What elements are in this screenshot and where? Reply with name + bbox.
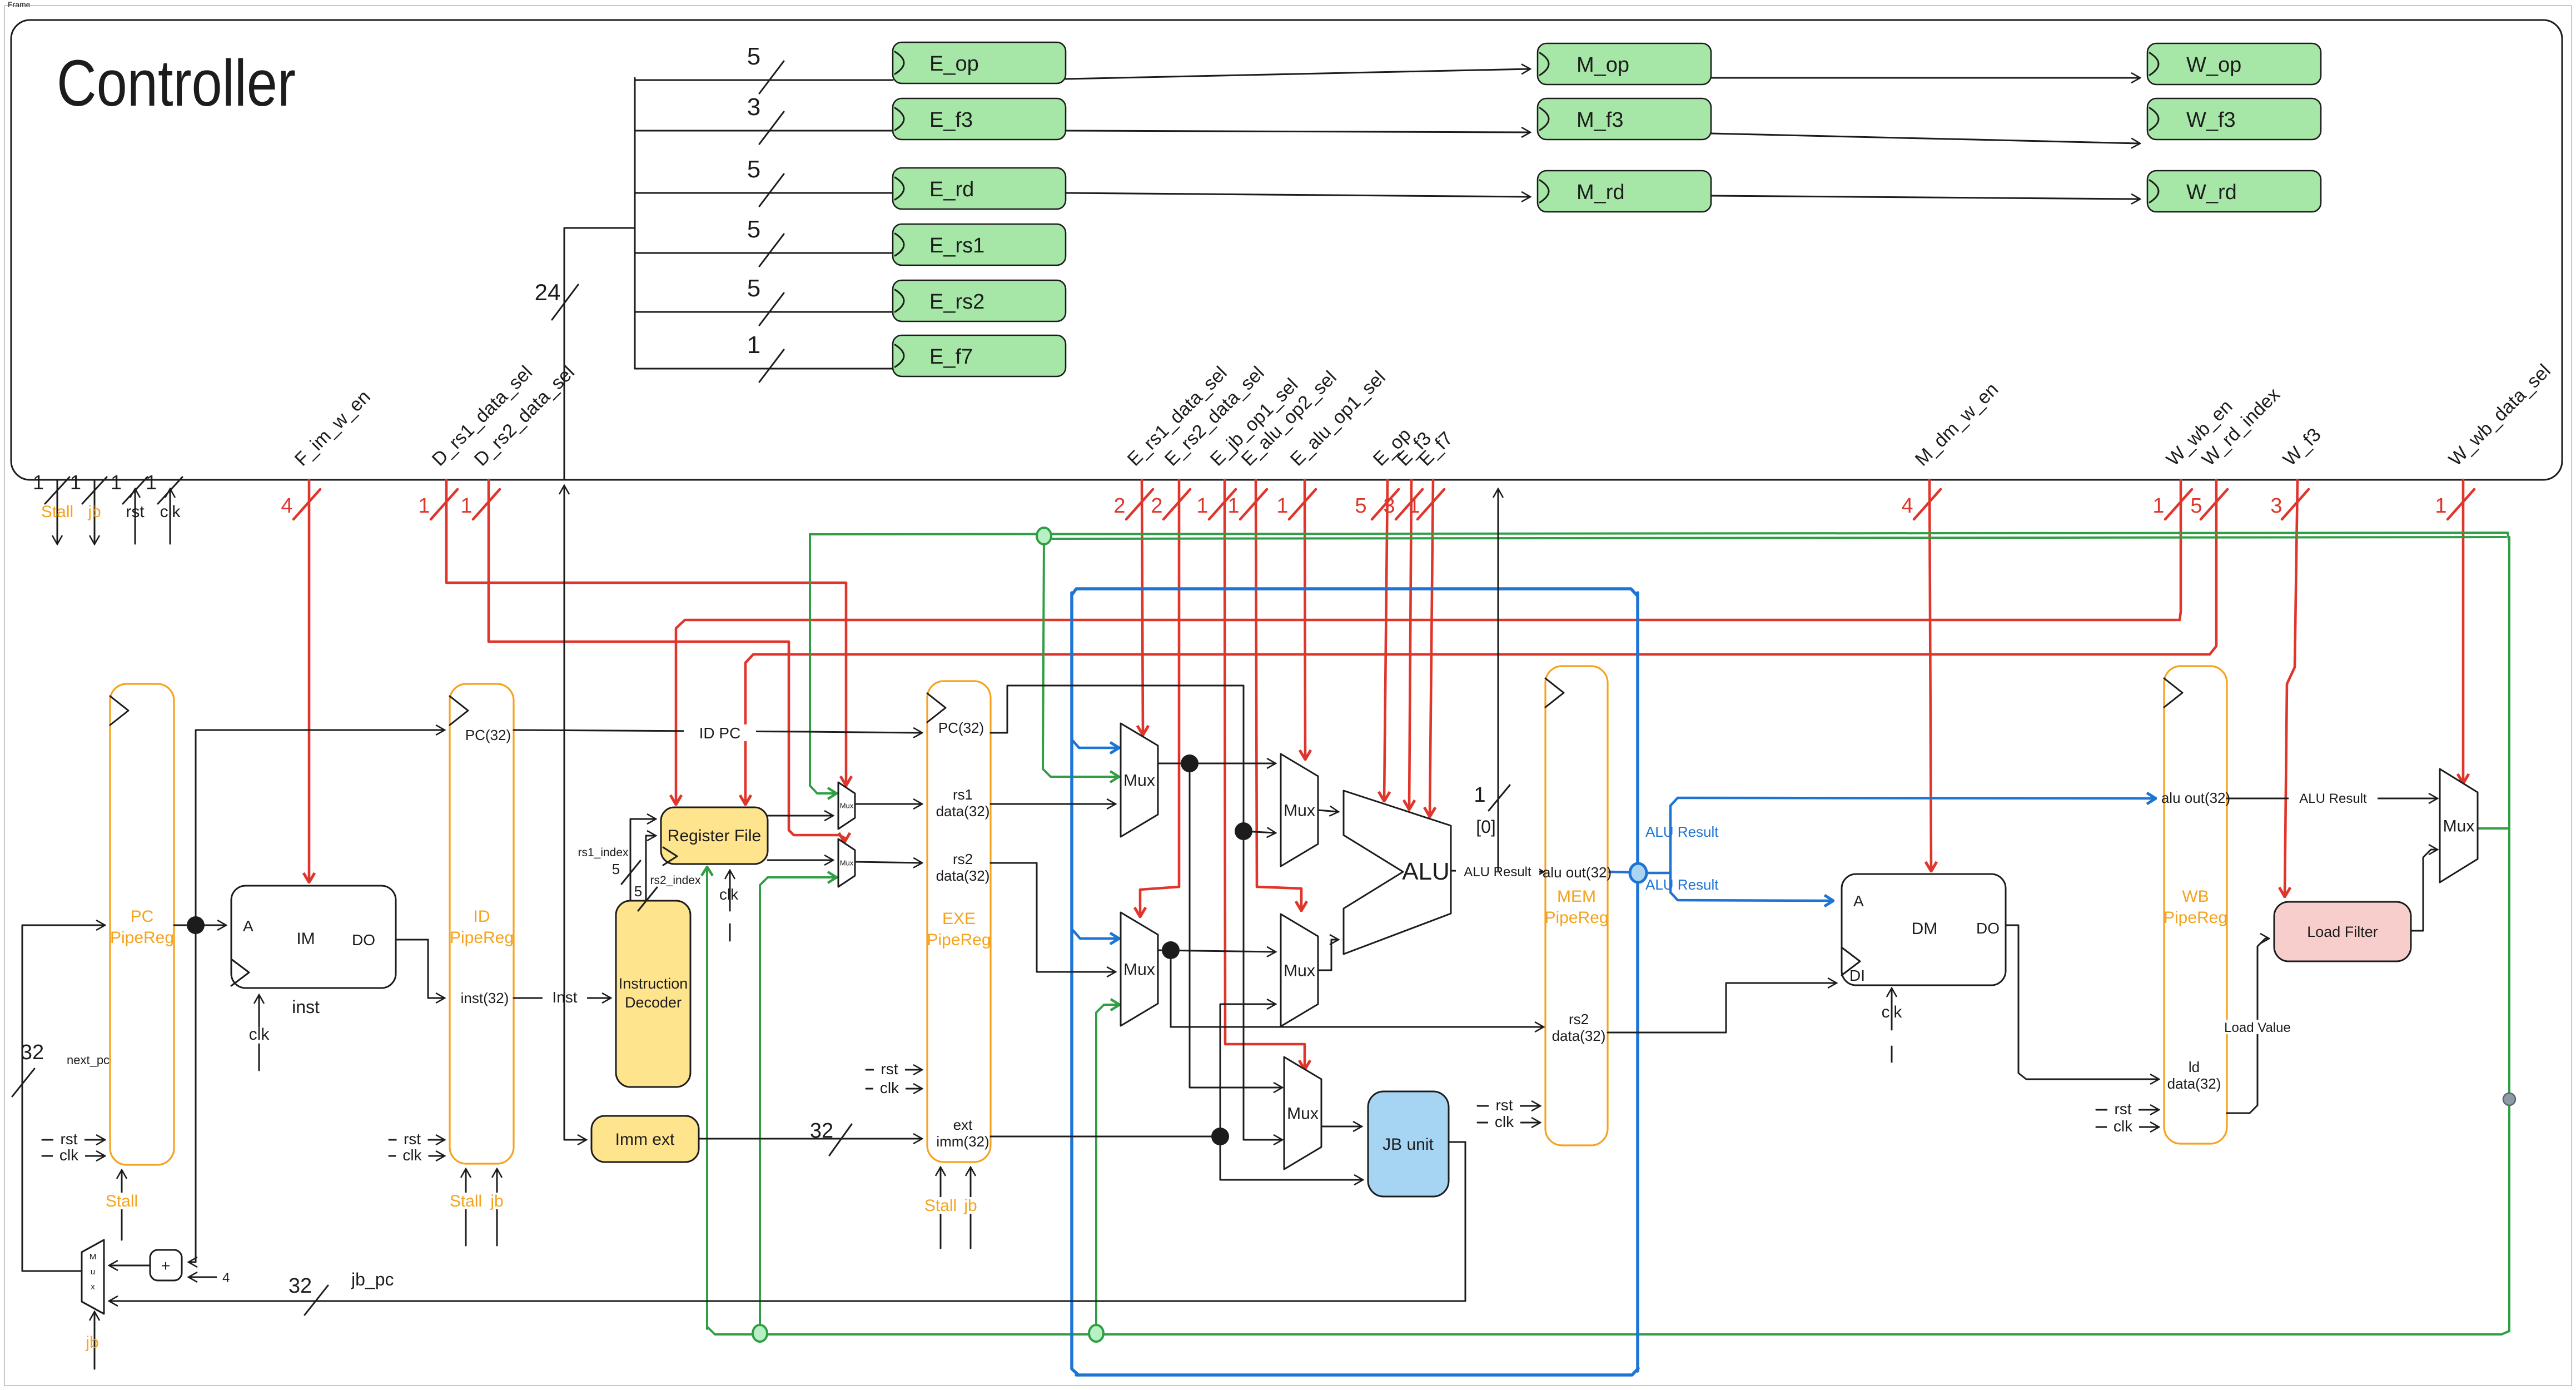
wire to E register (5 bits) (635, 156, 893, 206)
label M_dm_w_en width 4 (1901, 489, 1941, 519)
svg-text:M: M (89, 1252, 97, 1262)
svg-text:clk: clk (402, 1146, 422, 1164)
junction imm value (1211, 1128, 1229, 1145)
svg-text:DO: DO (1976, 920, 2000, 937)
svg-text:5: 5 (747, 156, 760, 183)
svg-text:3: 3 (1383, 494, 1395, 518)
label alu result bit0 (1474, 783, 1510, 837)
junction PC value (187, 916, 205, 934)
wire imm ext to EXE reg (699, 1119, 922, 1155)
svg-text:PC(32): PC(32) (938, 719, 984, 736)
immediate extender (591, 1116, 699, 1162)
svg-text:E_rd: E_rd (929, 178, 974, 201)
EXE PipeReg (927, 681, 991, 1162)
WB PipeReg (2164, 666, 2227, 1144)
wire to E register (5 bits) (635, 216, 893, 266)
svg-text:W_rd: W_rd (2186, 181, 2237, 204)
port rst (111, 471, 147, 544)
label E_f7 width 1 (1408, 489, 1444, 519)
svg-text:data(32): data(32) (1552, 1027, 1606, 1044)
svg-text:clk: clk (1495, 1113, 1514, 1130)
svg-text:M_op: M_op (1577, 53, 1629, 77)
svg-text:inst(32): inst(32) (461, 990, 509, 1006)
wire to E register (1 bits) (635, 331, 893, 382)
wire E_rd to M_rd (1066, 193, 1530, 197)
svg-text:u: u (91, 1267, 95, 1277)
svg-text:rst: rst (60, 1130, 77, 1148)
svg-text:PipeReg: PipeReg (927, 931, 991, 949)
alu op2 mux (1281, 914, 1318, 1026)
svg-text:Mux: Mux (2443, 817, 2475, 836)
svg-text:4: 4 (222, 1270, 230, 1285)
pc plus4 adder (150, 1250, 182, 1280)
wire M_dm_w_en to DM (1929, 480, 1931, 871)
wire D_rs1_data_sel to rs1 forward mux (446, 480, 846, 785)
jump branch unit (1368, 1091, 1449, 1197)
svg-text:clk: clk (2113, 1118, 2133, 1135)
svg-text:JB unit: JB unit (1383, 1135, 1434, 1154)
svg-text:WB: WB (2182, 887, 2209, 906)
svg-text:1: 1 (70, 471, 81, 494)
svg-text:1: 1 (418, 494, 430, 518)
svg-text:clk: clk (1882, 1003, 1903, 1021)
wire F_im_w_en to IM (308, 480, 311, 882)
svg-text:MEM: MEM (1557, 887, 1596, 906)
wire alu op1 mux to ALU (1318, 810, 1338, 812)
rs1 forward mux (838, 782, 855, 829)
svg-text:5: 5 (747, 216, 760, 243)
instruction memory IM (231, 886, 396, 1017)
ALU (1344, 791, 1451, 954)
svg-text:5: 5 (634, 883, 642, 900)
svg-text:Mux: Mux (1284, 802, 1315, 820)
register E_op (893, 42, 1066, 83)
wire E_alu_op1_sel to alu op1 mux (1305, 480, 1305, 759)
svg-text:1: 1 (1276, 494, 1288, 518)
wire op1 mux to alu op1 mux (1158, 763, 1275, 765)
wire Stall to PC reg (94, 1170, 150, 1240)
wire load filter to writeback mux (2411, 850, 2437, 931)
svg-text:3: 3 (2270, 494, 2282, 518)
register file (661, 807, 768, 865)
label E_alu_op2_sel width 1 (1227, 489, 1267, 519)
svg-text:rs2: rs2 (1569, 1011, 1589, 1027)
svg-text:jb: jb (85, 1333, 98, 1352)
wire W_f3 to load filter (2285, 480, 2297, 896)
svg-text:PipeReg: PipeReg (2164, 909, 2227, 927)
svg-text:Stall: Stall (41, 503, 73, 521)
wire jb select to next pc mux (85, 1312, 98, 1369)
svg-text:Stall: Stall (924, 1197, 957, 1215)
svg-text:1: 1 (2435, 494, 2446, 518)
svg-text:alu out(32): alu out(32) (1543, 864, 1612, 881)
svg-text:3: 3 (747, 93, 760, 121)
wire clk to register file (719, 871, 739, 941)
svg-text:+: + (161, 1257, 170, 1274)
svg-text:ALU Result: ALU Result (1645, 876, 1719, 893)
wire alu op2 mux to ALU (1318, 940, 1338, 970)
svg-text:rs2_index: rs2_index (650, 874, 701, 887)
junction alu result (1630, 863, 1647, 882)
wire rs2_index to register file (646, 836, 655, 901)
svg-text:Frame: Frame (8, 0, 31, 9)
svg-text:5: 5 (2190, 494, 2202, 518)
svg-text:rst: rst (1495, 1096, 1513, 1114)
wire rs1_index to register file (630, 819, 655, 901)
wire alu result bottom rail (1076, 1368, 1638, 1375)
wire imm to JB unit (1220, 1136, 1362, 1180)
label W_rd_index width 5 (2190, 489, 2227, 519)
svg-text:inst: inst (292, 997, 320, 1017)
wire ALU result to MEM reg (1451, 863, 1543, 880)
svg-text:Load Filter: Load Filter (2307, 924, 2378, 940)
junction wb data at small mux2 branch (753, 1325, 767, 1342)
wire alu result to wb reg (1638, 798, 2155, 873)
wire W_rd_index to register file (745, 480, 2216, 804)
svg-text:jb: jb (87, 503, 101, 521)
load filter (2274, 902, 2411, 961)
wire rst clk to ID reg (389, 1130, 444, 1164)
svg-text:M_rd: M_rd (1577, 181, 1625, 204)
register W_rd (2147, 171, 2321, 212)
wire to E register (5 bits) (635, 275, 893, 325)
svg-text:IM: IM (296, 930, 315, 948)
wire E_jb_op1_sel to jb operand mux (1225, 480, 1305, 1069)
svg-text:W_f3: W_f3 (2186, 108, 2236, 132)
junction op1 value (1181, 754, 1199, 772)
svg-text:clk: clk (880, 1079, 899, 1096)
wire EXE PC to alu op1 mux (991, 686, 1275, 833)
svg-text:DO: DO (352, 931, 375, 949)
op1 mux (1121, 723, 1158, 837)
wire EXE PC to jb mux (1244, 831, 1282, 1140)
svg-text:1: 1 (1474, 783, 1485, 807)
register M_op (1538, 43, 1711, 85)
wire alu result to dm address (1670, 873, 1833, 901)
wire E-register input bus (634, 78, 636, 369)
svg-text:ID PC: ID PC (699, 724, 741, 742)
svg-text:1: 1 (111, 471, 122, 494)
svg-text:Register File: Register File (668, 827, 761, 845)
svg-text:data(32): data(32) (936, 803, 990, 820)
wire Stall to ID reg (438, 1169, 494, 1245)
wire inst to decoder (514, 989, 610, 1006)
svg-text:ALU Result: ALU Result (1645, 823, 1719, 840)
wire rst clk to PC reg (42, 1130, 105, 1164)
svg-text:2: 2 (1151, 494, 1162, 518)
svg-text:5: 5 (612, 861, 620, 877)
svg-text:next_pc: next_pc (67, 1053, 110, 1067)
label rs2_index (634, 874, 701, 911)
wire jb_pc to next pc mux (110, 1142, 1465, 1301)
svg-text:Mux: Mux (1287, 1105, 1319, 1123)
register E_rd (893, 168, 1066, 209)
svg-text:ld: ld (2189, 1059, 2200, 1075)
svg-text:W_op: W_op (2186, 53, 2241, 77)
register E_f7 (893, 335, 1066, 376)
label jb_pc bus (289, 1269, 394, 1315)
svg-text:A: A (243, 917, 253, 935)
wire W_wb_data_sel to writeback mux (2462, 480, 2465, 783)
svg-text:DM: DM (1912, 920, 1938, 938)
svg-text:E_op: E_op (929, 52, 979, 76)
svg-text:clk: clk (249, 1025, 270, 1044)
svg-text:Imm ext: Imm ext (615, 1130, 675, 1149)
svg-text:1: 1 (747, 331, 760, 359)
wire PC down to adder (189, 925, 196, 1262)
svg-text:Mux: Mux (840, 802, 854, 810)
svg-text:imm(32): imm(32) (936, 1133, 989, 1150)
wire E_f7 to ALU (1430, 480, 1433, 816)
wire op1 to jb mux (1190, 763, 1282, 1088)
wire adder to next pc mux (110, 1265, 150, 1267)
svg-text:rst: rst (2114, 1100, 2131, 1118)
svg-text:PipeReg: PipeReg (1544, 909, 1608, 927)
wire wb data top rail (809, 534, 811, 543)
port jb (70, 471, 107, 544)
register E_rs2 (893, 280, 1066, 321)
wire wb data to small mux1 (810, 534, 836, 793)
label E_rs1_data_sel width 2 (1113, 489, 1153, 519)
svg-text:A: A (1853, 892, 1864, 910)
MEM PipeReg (1544, 666, 1608, 1145)
label W_wb_data_sel width 1 (2435, 489, 2474, 519)
wire writeback mux output (2478, 827, 2509, 830)
rs2 forward mux (838, 839, 855, 887)
wire rst clk to WB reg (2096, 1100, 2159, 1135)
svg-text:Mux: Mux (1284, 962, 1315, 980)
wire regfile rs1 to forward mux (768, 815, 833, 817)
wire rst clk to EXE reg (866, 1060, 922, 1096)
svg-text:PC: PC (131, 907, 154, 926)
wire forward mux1 to EXE rs1 (855, 803, 922, 805)
wire WB ld data to load filter (2220, 939, 2291, 1113)
label E_op width 5 (1355, 489, 1399, 519)
svg-text:rs2: rs2 (953, 851, 973, 867)
svg-text:rst: rst (881, 1060, 898, 1078)
label F_im_w_en width 4 (281, 489, 320, 519)
junction wb data at op2 branch (1089, 1325, 1103, 1342)
junction op2 value (1162, 941, 1180, 959)
label E_f3 width 3 (1383, 489, 1423, 519)
wire M_f3 to W_f3 (1711, 133, 2140, 143)
svg-text:PC(32): PC(32) (465, 727, 511, 743)
wire jb mux to JB unit (1321, 1126, 1361, 1128)
svg-text:ALU: ALU (1402, 858, 1450, 885)
svg-text:4: 4 (281, 494, 292, 518)
register E_rs1 (893, 224, 1066, 265)
svg-text:2: 2 (1113, 494, 1125, 518)
wire ALU result bit0 to controller (1498, 489, 1499, 871)
register M_f3 (1538, 98, 1711, 140)
svg-text:24: 24 (535, 279, 561, 305)
svg-text:rst: rst (126, 503, 145, 521)
svg-text:32: 32 (21, 1041, 44, 1064)
wire forward mux2 to EXE rs2 (855, 862, 922, 863)
register M_rd (1538, 171, 1711, 212)
wire alu result top rail (1072, 589, 1638, 596)
label E_alu_op1_sel width 1 (1276, 489, 1316, 519)
svg-text:[0]: [0] (1476, 817, 1496, 837)
wire inst fields up to controller (564, 486, 565, 998)
svg-text:1: 1 (460, 494, 472, 518)
wire op2 to MEM rs2 data (1171, 950, 1543, 1027)
writeback mux (2440, 769, 2478, 882)
op2 mux (1121, 912, 1158, 1026)
svg-text:1: 1 (33, 471, 44, 494)
svg-text:ALU Result: ALU Result (2299, 791, 2367, 806)
wire next_pc to PC reg (22, 925, 105, 1271)
label D_rs2_data_sel width 1 (460, 489, 500, 519)
wire const 4 to adder (189, 1270, 230, 1285)
svg-text:data(32): data(32) (2167, 1075, 2221, 1092)
label next_pc bus (12, 1041, 110, 1096)
svg-text:clk: clk (59, 1146, 79, 1164)
svg-text:E_f3: E_f3 (929, 108, 973, 132)
wire wb data bottom rail (707, 1327, 2509, 1334)
instruction decoder (616, 901, 690, 1087)
junction wb data at op1 branch (1037, 528, 1051, 544)
svg-text:Mux: Mux (1123, 772, 1155, 790)
wire to E register (3 bits) (635, 93, 893, 144)
svg-text:PipeReg: PipeReg (450, 929, 514, 947)
wire wb data right rail (2508, 537, 2510, 1331)
wire wb data to small mux2 (760, 877, 836, 1334)
wire alu result left rail (1072, 593, 1078, 1375)
waypoint wb data right rail (2503, 1093, 2515, 1105)
jb operand mux (1284, 1057, 1321, 1169)
wire alu result right rail (1636, 593, 1639, 1371)
svg-text:Stall: Stall (450, 1192, 482, 1210)
wire DM data out to WB reg (2006, 925, 2159, 1079)
wire E_rs1_data_sel to op1 mux (1142, 480, 1143, 734)
svg-text:EXE: EXE (942, 910, 976, 928)
svg-text:jb: jb (963, 1197, 977, 1215)
wire W_wb_en to register file (676, 480, 2181, 804)
svg-text:E_rs2: E_rs2 (929, 290, 984, 314)
label rs1_index (578, 846, 640, 884)
svg-text:Stall: Stall (106, 1192, 138, 1210)
wire mem alu out to junction (1608, 872, 1638, 872)
wire M_rd to W_rd (1711, 196, 2140, 199)
svg-text:E_rs1: E_rs1 (929, 234, 984, 257)
wire E_op to ALU (1384, 480, 1388, 801)
svg-text:clk: clk (719, 886, 739, 903)
wire op2 mux to alu op2 mux (1158, 950, 1275, 952)
wire IM data out to ID reg (396, 940, 444, 998)
svg-text:x: x (91, 1282, 95, 1292)
svg-text:M_f3: M_f3 (1577, 108, 1623, 132)
junction EXE PC (1235, 822, 1252, 840)
controller box (11, 20, 2562, 480)
wire EXE rs1 data to op1 mux (991, 803, 1115, 805)
svg-text:DI: DI (1849, 967, 1865, 984)
wire jb to ID reg (484, 1169, 510, 1245)
wire ID PC to EXE reg (514, 724, 922, 742)
wire M_op to W_op (1711, 77, 2140, 79)
svg-text:Instruction: Instruction (619, 975, 688, 992)
label E_jb_op1_sel width 1 (1196, 489, 1236, 519)
svg-text:jb: jb (490, 1192, 503, 1210)
svg-text:data(32): data(32) (936, 867, 990, 884)
svg-text:clk: clk (160, 503, 181, 521)
svg-text:4: 4 (1901, 494, 1913, 518)
svg-text:1: 1 (2152, 494, 2164, 518)
wire E_op to M_op (1066, 69, 1530, 79)
register W_f3 (2147, 98, 2321, 140)
svg-text:1: 1 (1196, 494, 1208, 518)
wire EXE rs2 data to op2 mux (991, 863, 1115, 972)
wire E_alu_op2_sel to alu op2 mux (1256, 480, 1301, 910)
svg-text:5: 5 (747, 275, 760, 302)
svg-text:1: 1 (1227, 494, 1239, 518)
svg-text:5: 5 (1355, 494, 1366, 518)
svg-text:32: 32 (289, 1274, 312, 1298)
port Stall (33, 471, 73, 544)
wire WB alu out to writeback mux (2227, 790, 2437, 806)
wire wb data to op1 mux (1043, 537, 1118, 777)
svg-text:Decoder: Decoder (625, 994, 682, 1011)
svg-text:32: 32 (810, 1119, 833, 1143)
PC PipeReg (110, 684, 174, 1165)
label D_rs1_data_sel width 1 (418, 489, 457, 519)
svg-text:rs1: rs1 (953, 786, 973, 803)
wire 24-bit decode bus (564, 228, 635, 480)
alu op1 mux (1281, 754, 1318, 866)
next pc mux (82, 1240, 104, 1314)
svg-text:Controller: Controller (57, 47, 296, 120)
wire E_f3 to M_f3 (1066, 131, 1530, 132)
wire E_f3 to ALU (1409, 480, 1411, 809)
wire clk to IM (249, 995, 270, 1070)
svg-text:PipeReg: PipeReg (110, 929, 174, 947)
register W_op (2147, 43, 2321, 85)
label W_f3 width 3 (2270, 489, 2309, 519)
register E_f3 (893, 98, 1066, 140)
wire PC to ID reg (196, 730, 444, 925)
wire inst down to imm ext (564, 998, 586, 1140)
wire alu result to op2 mux (1073, 930, 1118, 939)
wire jb to EXE reg (958, 1168, 983, 1248)
label 24 bus width (535, 279, 578, 320)
label W_wb_en width 1 (2152, 489, 2192, 519)
wire PC to IM address (174, 925, 226, 926)
wire clk to DM (1882, 989, 1903, 1062)
wire Stall to EXE reg (913, 1168, 968, 1248)
wire alu result to op1 mux (1072, 739, 1118, 748)
wire wb data to register file (706, 867, 708, 1329)
svg-text:Mux: Mux (1123, 961, 1155, 979)
svg-text:Load Value: Load Value (2224, 1020, 2291, 1035)
svg-text:jb_pc: jb_pc (351, 1269, 394, 1289)
wire wb data to op2 mux (1096, 1005, 1119, 1334)
ID PipeReg (450, 684, 514, 1164)
svg-text:alu out(32): alu out(32) (2161, 790, 2230, 806)
port clk (146, 471, 182, 544)
data memory DM (1842, 874, 2006, 985)
svg-text:E_f7: E_f7 (929, 345, 973, 369)
wire rst clk to MEM reg (1478, 1096, 1540, 1130)
svg-text:rst: rst (404, 1130, 421, 1148)
svg-text:rs1_index: rs1_index (578, 846, 629, 859)
svg-text:ext: ext (953, 1116, 973, 1133)
wire to E register (5 bits) (635, 43, 893, 93)
svg-text:5: 5 (747, 43, 760, 70)
svg-text:1: 1 (146, 471, 157, 494)
wire MEM rs2 data to DM data in (1608, 983, 1836, 1032)
wire regfile rs2 to forward mux (768, 860, 833, 861)
wire E_rs2_data_sel to op2 mux (1140, 480, 1179, 916)
